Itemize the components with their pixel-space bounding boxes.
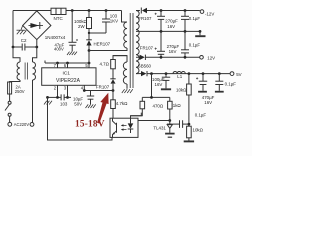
ground under 10uF xyxy=(86,104,96,108)
svg-text:0.1µF: 0.1µF xyxy=(225,82,237,87)
svg-text:NTC: NTC xyxy=(54,16,64,21)
diode FR107 row1 xyxy=(141,8,200,14)
capacitor 0.1uF compensation xyxy=(173,120,189,128)
node drain junctions xyxy=(88,49,91,64)
svg-text:2: 2 xyxy=(54,86,57,91)
svg-text:16V: 16V xyxy=(155,82,163,87)
capacitor 0.1uF upper xyxy=(181,11,189,32)
ground bar under 0.1uF xyxy=(215,91,224,93)
capacitor 100uF 16V xyxy=(162,74,170,89)
wire feedback tap xyxy=(142,74,170,98)
svg-text:3: 3 xyxy=(64,86,67,91)
wire secondary ground rail xyxy=(139,30,200,32)
capacitor 103 FB xyxy=(61,94,71,100)
ground under 47uF xyxy=(67,52,77,55)
wire source rail top pins xyxy=(45,61,89,64)
svg-text:C2: C2 xyxy=(21,38,27,43)
svg-text:400V: 400V xyxy=(54,46,64,51)
ground bars under 10k lower xyxy=(184,140,194,142)
svg-text:0.1µF: 0.1µF xyxy=(195,113,207,118)
svg-text:IC1: IC1 xyxy=(63,71,71,77)
diode HER107 xyxy=(86,33,92,51)
transformer primary winding xyxy=(122,11,128,51)
resistor 1k xyxy=(168,97,173,120)
svg-text:4.7Ω: 4.7Ω xyxy=(100,62,110,67)
capacitor 103 1KV xyxy=(102,11,110,34)
svg-text:7: 7 xyxy=(54,63,57,68)
resistor 4.7k xyxy=(111,91,116,119)
diode FR107 aux xyxy=(110,69,115,91)
wire FB line xyxy=(48,96,61,98)
resistor 10k lower xyxy=(187,126,192,141)
wire opto emitter return xyxy=(48,97,113,140)
AC220V terminals xyxy=(8,122,34,126)
wire snubber bottom xyxy=(89,32,106,34)
inductor L1 xyxy=(173,72,185,74)
svg-text:470Ω: 470Ω xyxy=(153,104,164,109)
wire bridge bottom to C2 xyxy=(36,40,38,47)
svg-text:TL431: TL431 xyxy=(153,125,166,130)
fuse 2A 250V xyxy=(8,82,12,94)
svg-text:FR107: FR107 xyxy=(96,85,110,90)
capacitor 270uF 16V lower xyxy=(155,31,165,57)
resistor 100kOhm 2W xyxy=(87,11,92,34)
wire VDD xyxy=(84,90,113,92)
diode FR107 row2 xyxy=(139,55,200,60)
common-mode choke line filter xyxy=(13,47,37,80)
switch xyxy=(5,94,11,122)
wire opto K line xyxy=(138,120,170,122)
capacitor 10uF 50V xyxy=(87,91,94,105)
svg-text:250V: 250V xyxy=(15,89,25,94)
wire top DC rail xyxy=(13,10,122,12)
wire choke right to AC terminal xyxy=(32,80,34,123)
resistor 4.7 Ohm xyxy=(111,56,127,69)
terminal 12V xyxy=(200,56,204,60)
node TL431 cathode and divider xyxy=(168,119,190,125)
annotation 15-18V red xyxy=(75,119,105,129)
ground bars under TL431 xyxy=(165,134,175,138)
svg-text:16V: 16V xyxy=(167,24,175,29)
svg-text:1kΩ: 1kΩ xyxy=(173,103,182,108)
red arrow xyxy=(97,93,109,124)
svg-text:1N4007x4: 1N4007x4 xyxy=(45,35,66,40)
ground bar under 100uF xyxy=(161,88,171,90)
svg-text:10kΩ: 10kΩ xyxy=(193,128,204,133)
resistor 10k upper xyxy=(187,74,192,127)
wire opto LED anode to 470 xyxy=(131,113,142,119)
transformer T1 core xyxy=(130,13,133,88)
svg-text:10kΩ: 10kΩ xyxy=(176,87,187,92)
capacitor 0.1uF 5V rail xyxy=(215,74,223,91)
svg-text:L1: L1 xyxy=(177,74,182,79)
NTC thermistor xyxy=(51,8,66,14)
svg-text:FR107: FR107 xyxy=(138,16,152,21)
wire drain vertical to pin5 xyxy=(88,51,90,68)
svg-text:-12V: -12V xyxy=(205,12,214,17)
svg-text:0.1µF: 0.1µF xyxy=(189,16,201,21)
bridge rectifier 1N4007x4 xyxy=(23,11,51,40)
terminal 5V xyxy=(230,72,234,76)
terminal -12V xyxy=(200,10,204,14)
ground at bridge left vertex xyxy=(17,26,27,35)
svg-text:16V: 16V xyxy=(169,49,177,54)
TL431 xyxy=(167,120,173,133)
resistor 470 Ohm xyxy=(131,97,145,115)
svg-text:VIPER22A: VIPER22A xyxy=(56,78,81,84)
optocoupler xyxy=(110,118,138,137)
svg-text:4.7kΩ: 4.7kΩ xyxy=(116,101,128,106)
transformer aux winding xyxy=(113,56,127,89)
wire left AC line xyxy=(12,11,14,48)
svg-text:0.1µF: 0.1µF xyxy=(189,42,201,47)
svg-text:HER107: HER107 xyxy=(94,41,111,46)
capacitor 0.1uF lower xyxy=(181,31,189,57)
svg-text:16V: 16V xyxy=(204,100,212,105)
svg-text:50V: 50V xyxy=(74,101,82,106)
IC U1 VIPER22A xyxy=(42,63,96,85)
capacitor 47uF 400V xyxy=(69,11,79,52)
node junction dots on top rail xyxy=(71,9,108,12)
svg-text:FR107: FR107 xyxy=(140,45,154,50)
svg-text:1KV: 1KV xyxy=(110,18,118,23)
ground at FB node xyxy=(44,101,52,105)
pin stubs bottom xyxy=(58,85,85,97)
capacitor 470uF 16V xyxy=(196,74,207,91)
transformer secondary winding xyxy=(136,11,140,74)
svg-text:12V: 12V xyxy=(207,56,215,61)
svg-text:5V: 5V xyxy=(236,72,241,77)
ground under aux winding xyxy=(122,89,133,93)
svg-text:103: 103 xyxy=(60,102,68,107)
capacitor C2 xyxy=(13,44,37,51)
svg-text:AC220V: AC220V xyxy=(14,122,30,127)
ground bar on rail xyxy=(195,31,205,36)
wire choke to fuse xyxy=(10,80,20,82)
svg-text:2W: 2W xyxy=(78,24,85,29)
wire HER107 node to primary bottom xyxy=(89,48,127,51)
ground bar under 470uF xyxy=(198,91,207,93)
svg-text:270µF: 270µF xyxy=(165,18,178,23)
capacitor 270uF 16V upper xyxy=(155,11,165,32)
diode SB560 row3 xyxy=(139,71,230,76)
svg-text:SB560: SB560 xyxy=(138,64,152,69)
